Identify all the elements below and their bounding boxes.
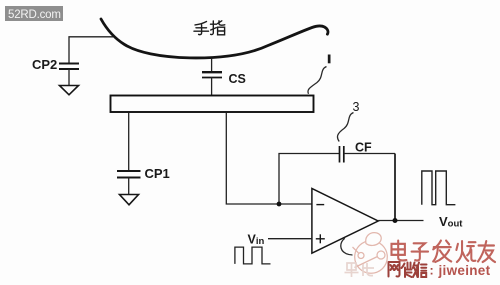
junction node (output) <box>393 218 398 223</box>
red watermark text 电子发烧友 <box>391 241 495 262</box>
sensor plate electrode <box>111 96 314 113</box>
信 <box>417 263 427 278</box>
发 <box>433 241 451 262</box>
elecfans logo circle (red watermark) <box>353 233 388 274</box>
ground (CP2) <box>60 86 79 95</box>
faint ghost characters 集微 <box>345 263 375 277</box>
finger curve (手指) <box>101 19 328 58</box>
minus symbol <box>316 204 324 206</box>
wire plate to CP1 <box>128 113 130 171</box>
op-amp U1 <box>312 188 378 253</box>
feedback wire up <box>279 154 339 205</box>
output wire <box>378 220 423 222</box>
capacitor CP1 <box>117 171 141 178</box>
微 <box>402 263 418 278</box>
Vout square wave <box>422 171 456 205</box>
友 <box>478 241 495 262</box>
wire finger to CS <box>211 59 213 72</box>
网 <box>389 262 400 277</box>
svg-text:52RD.com: 52RD.com <box>8 9 61 21</box>
feedback wire down to output <box>394 154 396 221</box>
Vin square wave <box>235 247 271 264</box>
junction node (inverting input) <box>277 202 282 207</box>
指 <box>211 23 217 25</box>
svg-text:3: 3 <box>353 100 360 114</box>
svg-text:CP1: CP1 <box>145 166 170 181</box>
annotation squiggle from op-amp <box>341 238 353 255</box>
red watermark text 网微信 <box>389 262 427 277</box>
svg-text:jiweinet: jiweinet <box>438 263 491 278</box>
手 <box>195 22 207 25</box>
svg-text::: : <box>430 264 434 278</box>
capacitor CF <box>340 146 344 163</box>
wire plate to inverting input <box>226 113 312 205</box>
wire CP2 to ground <box>68 69 70 86</box>
wire CS to plate <box>211 78 213 96</box>
svg-text:CS: CS <box>229 72 246 86</box>
plus symbol <box>316 234 325 243</box>
wire Vin to non-inverting input <box>268 238 312 240</box>
svg-text:CF: CF <box>355 141 372 155</box>
电 <box>391 241 406 261</box>
callout squiggle to 3 <box>337 113 353 142</box>
watermark 52RD.com box <box>5 6 63 21</box>
wire CP2 top to finger <box>69 37 113 64</box>
svg-text:CP2: CP2 <box>32 57 57 72</box>
烧 <box>456 241 475 262</box>
capacitor CP2 <box>59 64 79 70</box>
label I <box>328 55 331 64</box>
ground (CP1) <box>120 195 139 205</box>
callout squiggle to I <box>308 67 327 94</box>
capacitor CS <box>202 72 222 77</box>
wire CP1 to ground <box>128 178 130 195</box>
feedback wire right of CF <box>344 153 395 155</box>
label 手指 (finger) <box>194 21 225 35</box>
子 <box>412 243 428 260</box>
